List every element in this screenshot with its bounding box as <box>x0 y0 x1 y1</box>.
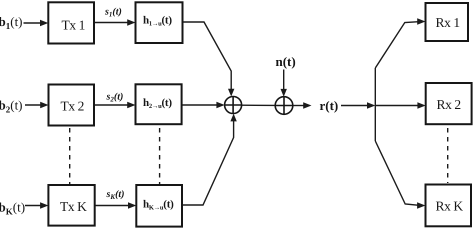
wire summer2 output arrow <box>293 102 312 108</box>
wire bK input arrow <box>25 202 48 208</box>
wire junction vertical trunk <box>374 68 376 141</box>
wire TxK to hK <box>95 202 137 208</box>
wire hK to summer (elbow + diagonal) <box>182 114 237 205</box>
dashed continuation between Tx2 and TxK <box>69 128 71 184</box>
wire summer1 to summer2 <box>242 104 276 106</box>
svg-text:sK(t): sK(t) <box>106 189 125 201</box>
text h2->u(t) <box>143 97 172 110</box>
wire n(t) arrow into summer2 <box>281 70 287 97</box>
dashed continuation between h2 and hK <box>159 128 161 184</box>
block Rx 1 <box>426 3 469 41</box>
text Rx K <box>436 199 464 214</box>
svg-text:s1(t): s1(t) <box>104 7 122 19</box>
label sK(t) <box>106 189 125 201</box>
text Rx 1 <box>436 15 460 30</box>
svg-text:b1(t): b1(t) <box>0 14 23 31</box>
wire junction to Rx2 <box>375 102 425 108</box>
svg-text:n(t): n(t) <box>276 54 296 69</box>
text Tx 2 <box>61 99 85 114</box>
wire h2 to summer <box>182 102 225 108</box>
text h1->u(t) <box>143 15 172 28</box>
block Rx 2 <box>426 83 472 124</box>
svg-text:Rx K: Rx K <box>436 199 464 214</box>
label r(t) <box>320 98 339 113</box>
svg-text:Tx K: Tx K <box>60 199 87 214</box>
label s1(t) <box>104 7 122 19</box>
svg-text:Rx 1: Rx 1 <box>436 15 460 30</box>
svg-text:b2(t): b2(t) <box>0 98 23 115</box>
summer node 1 (circle with plus) <box>225 97 242 114</box>
wire r(t) to junction <box>341 102 375 108</box>
text hK->u(t) <box>143 199 174 212</box>
svg-text:Tx 2: Tx 2 <box>61 99 85 114</box>
svg-text:Rx 2: Rx 2 <box>437 97 461 112</box>
wire h1 to summer (elbow + diagonal) <box>183 22 235 97</box>
block Tx 2 <box>49 85 95 126</box>
wire trunk to RxK (diagonal + arrow) <box>375 141 425 209</box>
label b1(t) <box>0 14 23 31</box>
summer node 2 (circle with plus) <box>275 97 293 115</box>
block Rx K <box>426 185 472 227</box>
block Tx K <box>48 185 94 226</box>
svg-text:bK(t): bK(t) <box>0 200 25 217</box>
block Tx 1 <box>48 2 94 43</box>
text Tx 1 <box>62 18 86 33</box>
wire b1 input arrow <box>24 20 49 26</box>
block h2->u(t) <box>136 84 182 124</box>
label s2(t) <box>106 92 124 104</box>
wire Tx2 to h2 <box>94 102 136 108</box>
wire Tx1 to h1 <box>94 19 136 25</box>
svg-text:Tx 1: Tx 1 <box>62 18 86 33</box>
label bK(t) <box>0 200 25 217</box>
label n(t) <box>276 54 296 69</box>
text Tx K <box>60 199 87 214</box>
wire trunk to Rx1 (diagonal + arrow) <box>375 18 425 68</box>
svg-text:s2(t): s2(t) <box>106 92 124 104</box>
block hK->u(t) <box>136 185 182 227</box>
text Rx 2 <box>437 97 461 112</box>
label b2(t) <box>0 98 23 115</box>
wire b2 input arrow <box>25 102 49 108</box>
dashed continuation between Rx2 and RxK <box>447 128 449 183</box>
block h1->u(t) <box>136 2 183 43</box>
svg-text:r(t): r(t) <box>320 98 339 113</box>
